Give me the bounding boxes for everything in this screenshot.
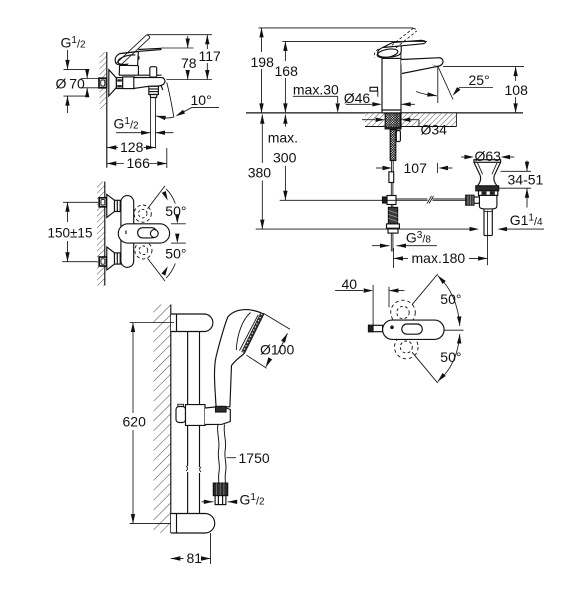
centerline ext	[444, 329, 463, 331]
svg-text:50°: 50°	[440, 291, 461, 307]
wall hatch band	[100, 52, 107, 109]
phantom dashed	[391, 300, 416, 325]
wall stub	[369, 325, 383, 331]
O63 dim	[461, 156, 464, 158]
34-51 dim	[501, 170, 531, 172]
50 deg lower	[412, 352, 438, 383]
spout body	[134, 77, 165, 88]
body column	[382, 58, 401, 113]
svg-text:168: 168	[275, 63, 299, 79]
lever grip	[378, 46, 402, 57]
svg-text:81: 81	[187, 550, 203, 566]
escutcheon cone	[109, 70, 117, 96]
svg-text:128: 128	[120, 139, 144, 155]
phantom dashed circles	[134, 205, 151, 222]
svg-text:Ø100: Ø100	[260, 342, 294, 358]
body capsule	[121, 196, 134, 268]
aerator under spout	[149, 86, 159, 94]
bottom union square	[99, 257, 106, 266]
svg-text:1750: 1750	[239, 450, 270, 466]
380 dim	[261, 115, 263, 164]
svg-text:107: 107	[404, 160, 428, 176]
handle capsule	[383, 320, 445, 339]
svg-text:50°: 50°	[440, 349, 461, 365]
svg-text:198: 198	[251, 54, 275, 70]
wall inlet square	[99, 78, 107, 88]
max.180	[393, 248, 395, 268]
svg-text:300: 300	[273, 150, 297, 166]
svg-text:max.: max.	[268, 130, 298, 146]
cartridge dome	[119, 51, 138, 75]
holder clamp	[178, 404, 184, 406]
top bracket	[171, 314, 213, 332]
horizontal lever rod	[280, 199, 428, 201]
cartridge dome	[382, 52, 401, 59]
handle capsule	[118, 224, 169, 243]
10deg arc	[156, 116, 173, 118]
stream line 10deg	[167, 83, 174, 118]
svg-text:10°: 10°	[191, 92, 212, 108]
620 dim	[130, 322, 174, 324]
phantom raised lever (dashed)	[392, 28, 417, 48]
spout	[401, 58, 443, 74]
128 dim	[107, 145, 117, 149]
top escutcheon cone	[107, 194, 115, 217]
svg-text:Ø 70: Ø 70	[56, 76, 85, 92]
bottom bracket	[171, 514, 215, 534]
rail	[187, 332, 189, 467]
counter hatch	[365, 113, 385, 126]
hand shower	[214, 310, 263, 407]
pop-up knob left	[370, 87, 378, 91]
O100 dim	[263, 313, 290, 329]
svg-text:max.180: max.180	[412, 250, 466, 266]
168 dim	[284, 41, 286, 61]
bottom escutcheon cone	[107, 247, 115, 270]
wall hatch band	[154, 305, 171, 534]
50 deg upper	[412, 274, 438, 305]
50deg lower	[148, 258, 166, 281]
svg-text:108: 108	[505, 82, 529, 98]
diverter knob	[150, 67, 157, 77]
valve body block	[123, 77, 135, 89]
G1/2 label	[202, 501, 214, 503]
1750 label	[227, 457, 237, 459]
ticks at handle end	[171, 223, 186, 225]
nut	[116, 78, 122, 89]
wall hatch band	[97, 182, 105, 286]
svg-text:50°: 50°	[165, 203, 186, 219]
top union square	[99, 198, 106, 207]
phantom lever raised	[117, 35, 150, 66]
10deg leader	[177, 108, 219, 116]
shank below deck	[385, 113, 401, 127]
ext lines below outlet	[150, 98, 152, 149]
78 / 117 dims	[147, 34, 212, 36]
svg-text:380: 380	[248, 165, 272, 181]
lever blade	[383, 40, 425, 47]
81 dim	[210, 533, 212, 564]
25 deg	[437, 66, 439, 103]
pop-up rod knob	[396, 113, 398, 130]
O34 label	[362, 119, 375, 121]
svg-text:34-51: 34-51	[508, 172, 544, 188]
svg-text:166: 166	[127, 155, 151, 171]
150+-15 dim	[63, 201, 98, 203]
rod column	[391, 161, 393, 172]
166 dim	[166, 148, 168, 168]
108 dim	[443, 66, 524, 68]
svg-text:620: 620	[123, 414, 147, 430]
svg-text:25°: 25°	[469, 72, 490, 88]
drain assembly	[474, 160, 501, 163]
svg-text:max.30: max.30	[293, 82, 339, 98]
hose	[218, 425, 220, 484]
107 dim	[437, 163, 439, 173]
50deg upper	[148, 186, 166, 209]
svg-text:117: 117	[199, 48, 222, 64]
svg-text:Ø63: Ø63	[475, 148, 502, 164]
svg-text:Ø46: Ø46	[344, 90, 371, 106]
svg-text:Ø34: Ø34	[421, 122, 448, 138]
svg-text:50°: 50°	[165, 246, 186, 262]
lever handle	[115, 51, 138, 65]
svg-text:78: 78	[181, 55, 197, 71]
198 dim	[259, 27, 414, 29]
svg-text:150±15: 150±15	[48, 225, 93, 240]
wall line	[106, 52, 108, 168]
deck line	[246, 112, 523, 114]
max.300 dim	[284, 115, 286, 127]
svg-text:40: 40	[342, 276, 358, 292]
